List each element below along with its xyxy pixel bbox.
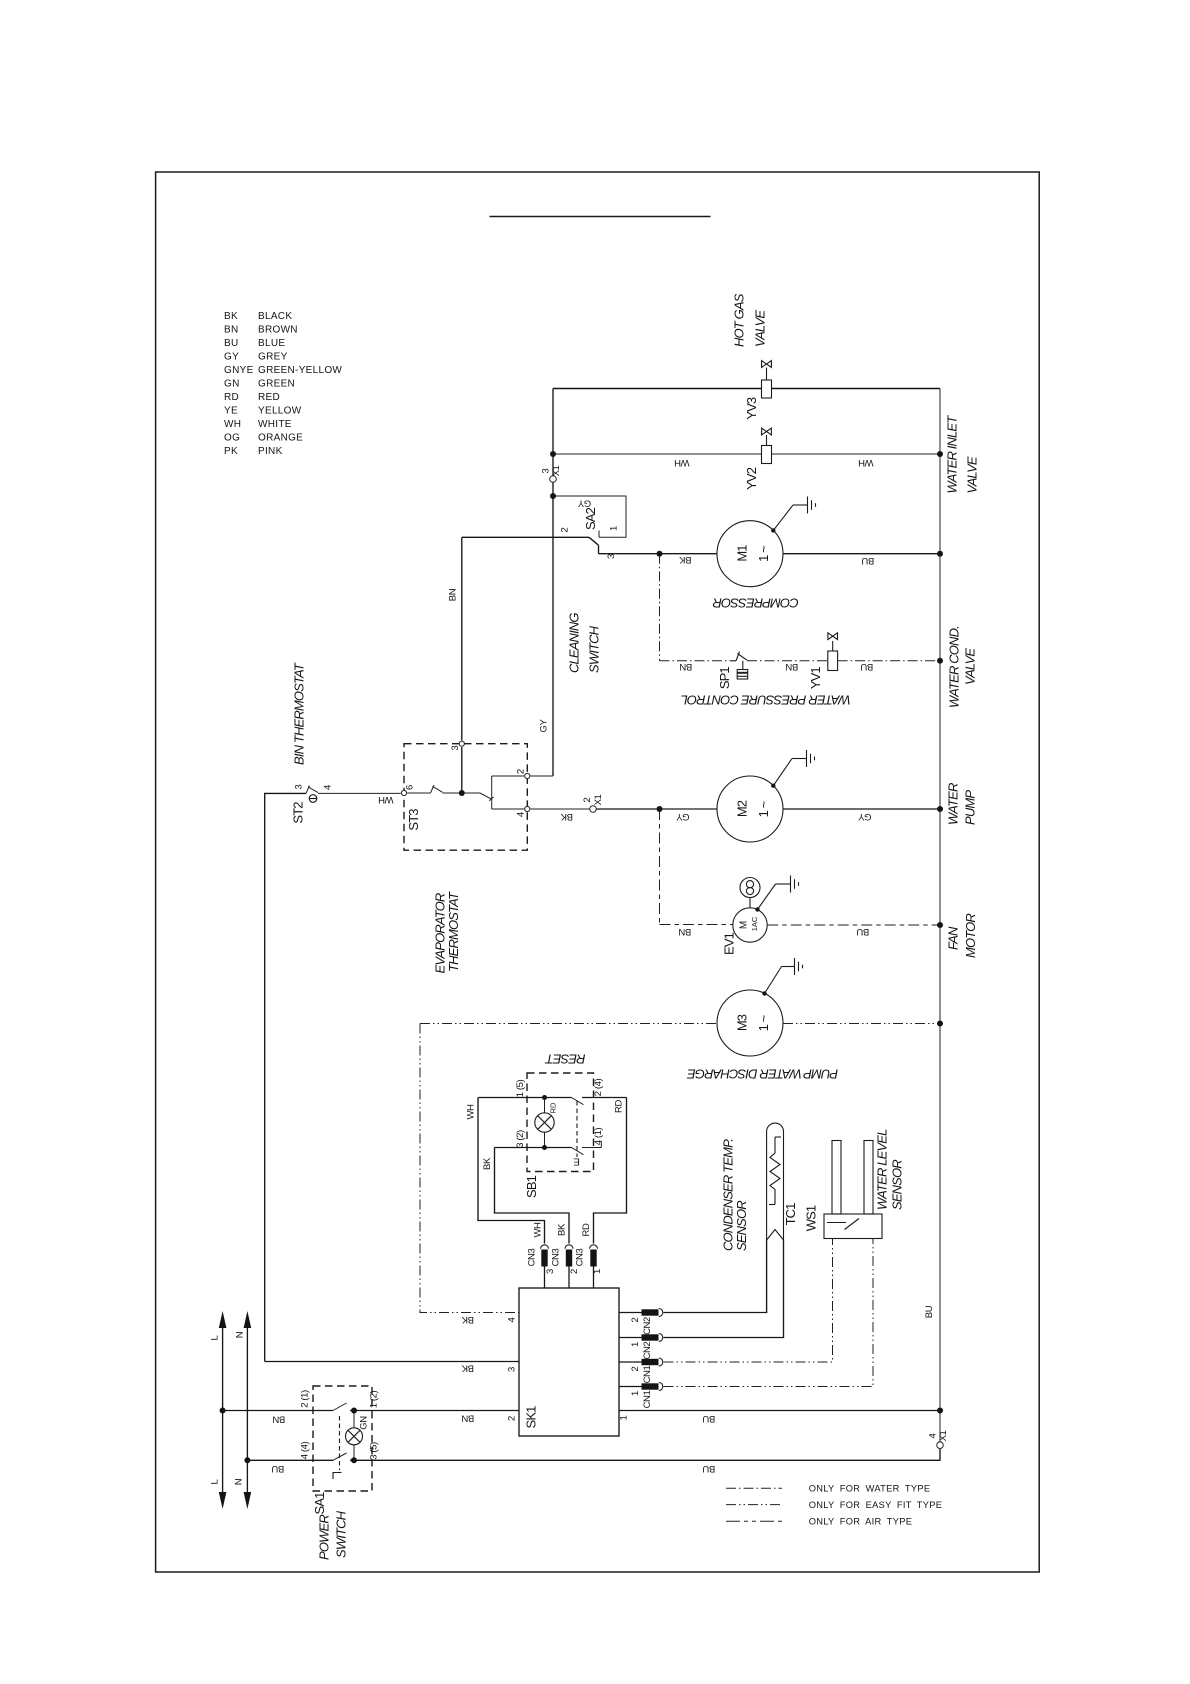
switch ST3 blade6	[431, 785, 443, 793]
svg-text:ST3: ST3	[406, 809, 421, 831]
SB1 mechanical link	[576, 1101, 578, 1157]
svg-text:YELLOW: YELLOW	[258, 406, 302, 417]
junction SA1 lamp bottom node	[351, 1457, 357, 1463]
junction bus M3 node	[937, 1021, 943, 1027]
svg-text:3: 3	[507, 1367, 518, 1372]
svg-text:CN1: CN1	[642, 1365, 653, 1383]
ground M2	[773, 750, 814, 786]
svg-text:4: 4	[516, 812, 527, 817]
junction M2 GY node	[657, 806, 663, 812]
svg-text:3: 3	[606, 554, 617, 559]
wire GY vertical with X1-3 gap	[552, 389, 554, 777]
pin CN2 CN1 digits	[630, 1317, 641, 1396]
junction bus M2 node	[937, 806, 943, 812]
svg-text:GN: GN	[224, 379, 240, 390]
legend row RD RED	[224, 392, 280, 403]
motor M1 compressor circle	[717, 521, 783, 587]
svg-text:WHITE: WHITE	[258, 419, 292, 430]
wire water-type SP1 to YV1	[747, 660, 828, 662]
junction M2 ground tap	[771, 784, 775, 788]
pressure switch SP1	[731, 652, 748, 680]
wire GN lamp legs	[353, 1411, 355, 1461]
wire easyfit CN1-2 to WS1 left	[664, 1239, 833, 1363]
svg-text:6: 6	[404, 785, 415, 790]
border frame	[156, 172, 1040, 1572]
terminal ST3 pin4	[525, 806, 530, 811]
wire easyfit M3 feed left run	[420, 1023, 717, 1025]
svg-text:YE: YE	[224, 406, 238, 417]
legend row BN BROWN	[224, 325, 298, 336]
svg-text:PUMP WATER DISCHARGE: PUMP WATER DISCHARGE	[687, 1067, 839, 1082]
legend row WH WHITE	[224, 419, 292, 430]
svg-text:2: 2	[630, 1366, 641, 1371]
svg-text:1: 1	[592, 1269, 603, 1274]
svg-text:2: 2	[569, 1269, 580, 1274]
wire SB1 lamp legs	[544, 1098, 546, 1148]
legend easy fit sample	[726, 1504, 782, 1506]
wire BU long bottom run to X1-4	[350, 1449, 940, 1460]
sensor WS1 probes	[832, 1141, 873, 1215]
svg-text:1: 1	[630, 1391, 641, 1396]
svg-text:FAN: FAN	[946, 926, 961, 950]
svg-text:BN: BN	[272, 1414, 285, 1425]
connector CN3-3	[541, 1245, 549, 1267]
wire hot-gas line y388	[553, 388, 940, 390]
legend row GNYE GREEN-YELLOW	[224, 365, 342, 376]
svg-text:SA2: SA2	[583, 507, 598, 530]
svg-text:BN: BN	[679, 661, 692, 672]
svg-text:SP1: SP1	[717, 667, 732, 690]
ground EV1	[758, 876, 799, 910]
svg-text:WH: WH	[674, 457, 690, 468]
terminal ST3 pin3	[459, 741, 464, 746]
wire M2 return GY to bus	[783, 808, 940, 810]
wire RD SB1 to CN3-1	[594, 1098, 627, 1244]
svg-text:POWER: POWER	[317, 1515, 332, 1560]
svg-text:4: 4	[323, 785, 334, 790]
SA1 manual operator symbol	[333, 1473, 342, 1480]
terminal label X1-2	[582, 794, 604, 805]
svg-text:L: L	[210, 1335, 221, 1340]
ground M3	[765, 958, 803, 994]
wire right bus neutral	[939, 389, 941, 1442]
wire SA2 pin2 from BN	[462, 536, 589, 538]
wire SB1 pin1 top	[478, 1097, 572, 1099]
terminal label X1-4	[928, 1430, 950, 1441]
switch SB1 bottom blade	[572, 1148, 584, 1155]
junction EV1 ground tap	[755, 907, 759, 911]
junction SA1 lamp top node	[351, 1408, 357, 1414]
svg-text:1 ~: 1 ~	[756, 545, 771, 562]
svg-text:GY: GY	[539, 718, 550, 732]
label HOT GAS VALVE	[732, 293, 768, 347]
valve YV2	[762, 428, 772, 463]
svg-text:WH: WH	[533, 1222, 544, 1238]
wire CN2-2 to TC1 left	[664, 1240, 767, 1313]
junction SB1 lamp bottom node	[542, 1145, 547, 1150]
fan blade symbol	[740, 878, 760, 908]
valve YV1	[828, 633, 838, 671]
svg-text:YV1: YV1	[808, 667, 823, 690]
legend row GN GREEN	[224, 379, 295, 390]
arrow L bottom	[219, 1492, 227, 1509]
arrow N top	[244, 1311, 252, 1328]
wire supply N	[246, 1326, 248, 1494]
valve YV3	[762, 361, 772, 398]
legend row BK BLACK	[224, 311, 292, 322]
svg-text:WH: WH	[858, 457, 874, 468]
switch SA1 top blade	[333, 1403, 347, 1411]
wire BU N to SA1	[247, 1459, 333, 1461]
SA1 mechanical link	[339, 1416, 341, 1470]
wire easyfit vertical to SK1 pin4	[420, 1024, 519, 1313]
terminal X1-2	[590, 806, 597, 813]
junction GY-WH node	[550, 451, 556, 457]
svg-text:BK: BK	[560, 811, 573, 822]
svg-text:BN: BN	[224, 325, 239, 336]
svg-text:ONLY FOR WATER TYPE: ONLY FOR WATER TYPE	[809, 1484, 931, 1494]
svg-text:RESET: RESET	[545, 1052, 586, 1067]
connector CN2-1	[642, 1334, 663, 1342]
terminal ST3 pin6	[401, 790, 406, 795]
svg-text:GY: GY	[857, 811, 871, 822]
svg-text:VALVE: VALVE	[963, 648, 978, 685]
motor EV1 fan circle	[733, 908, 767, 942]
svg-text:SA1: SA1	[312, 1492, 327, 1515]
svg-text:WS1: WS1	[804, 1205, 819, 1231]
svg-text:CN3: CN3	[575, 1248, 586, 1266]
wire air-type drop from M2 node	[659, 809, 661, 925]
svg-text:COMPRESSOR: COMPRESSOR	[713, 596, 799, 611]
svg-text:2: 2	[630, 1317, 641, 1322]
sensor WS1 body	[824, 1214, 882, 1239]
svg-text:PUMP: PUMP	[963, 790, 978, 825]
svg-text:BK: BK	[461, 1363, 474, 1374]
legend row BU BLUE	[224, 338, 285, 349]
switch SB1 top blade	[572, 1098, 584, 1105]
svg-text:GY: GY	[224, 352, 239, 363]
label WATER LEVEL SENSOR	[875, 1129, 905, 1210]
label EV1 M 1AC	[739, 916, 760, 931]
label CONDENSER TEMP. SENSOR	[721, 1139, 749, 1251]
svg-text:GREEN: GREEN	[258, 379, 295, 390]
motor M3 pump water discharge circle	[717, 990, 783, 1056]
svg-text:BU: BU	[924, 1305, 935, 1318]
svg-text:WATER LEVEL: WATER LEVEL	[875, 1129, 890, 1210]
switch SA2 blade	[589, 537, 599, 553]
wire SA2 pin3 to M1 node	[599, 553, 660, 555]
svg-text:1 (5): 1 (5)	[515, 1080, 526, 1098]
svg-text:BLACK: BLACK	[258, 311, 292, 322]
svg-text:3 (5): 3 (5)	[369, 1442, 380, 1460]
legend row PK PINK	[224, 446, 283, 457]
wire water-type SP1 run left	[660, 660, 732, 662]
svg-text:RED: RED	[258, 392, 280, 403]
svg-text:3: 3	[545, 1269, 556, 1274]
svg-text:GREY: GREY	[258, 352, 288, 363]
svg-text:BU: BU	[224, 338, 239, 349]
junction bus BU-M1 node	[937, 551, 943, 557]
svg-text:4: 4	[507, 1317, 518, 1322]
svg-text:BIN THERMOSTAT: BIN THERMOSTAT	[292, 662, 307, 765]
label WATER COND. VALVE	[947, 626, 978, 708]
svg-text:HOT GAS: HOT GAS	[732, 293, 747, 347]
connector CN3-1	[590, 1245, 598, 1267]
svg-text:BK: BK	[224, 311, 238, 322]
svg-text:ONLY FOR AIR TYPE: ONLY FOR AIR TYPE	[809, 1516, 913, 1526]
wire ST2 to ST3 pin6 WH	[318, 792, 401, 794]
svg-text:1 ~: 1 ~	[756, 1014, 771, 1031]
svg-text:X1: X1	[551, 465, 562, 476]
svg-text:BU: BU	[860, 661, 873, 672]
svg-text:M3: M3	[735, 1014, 750, 1031]
legend row YE YELLOW	[224, 406, 302, 417]
svg-text:1AC: 1AC	[750, 916, 759, 931]
svg-text:ORANGE: ORANGE	[258, 433, 303, 444]
svg-text:E: E	[573, 1156, 580, 1167]
svg-text:WATER: WATER	[946, 783, 961, 825]
wire ST2 left leg from frame	[265, 793, 306, 1361]
svg-text:BN: BN	[785, 661, 798, 672]
svg-text:BU: BU	[702, 1413, 715, 1424]
label M2	[735, 800, 772, 817]
svg-text:THERMOSTAT: THERMOSTAT	[446, 891, 461, 972]
connector CN3-2	[565, 1245, 573, 1267]
junction bus WH node	[937, 451, 943, 457]
svg-text:GN: GN	[359, 1416, 370, 1430]
wire M2 feed from X1-2 node	[660, 808, 718, 810]
svg-text:BN: BN	[678, 926, 691, 937]
svg-text:SWITCH: SWITCH	[587, 625, 602, 673]
svg-text:BN: BN	[448, 588, 459, 601]
svg-text:X1: X1	[593, 794, 604, 805]
svg-text:WH: WH	[378, 794, 394, 805]
svg-text:1: 1	[609, 526, 620, 531]
svg-text:CN3: CN3	[551, 1248, 562, 1266]
svg-text:GY: GY	[675, 811, 689, 822]
thermostat box ST3	[404, 744, 527, 851]
pushbutton box SB1	[527, 1073, 594, 1172]
svg-text:2: 2	[560, 527, 571, 532]
wire CN3 stubs to SK1	[545, 1267, 594, 1289]
junction L-BN node	[220, 1408, 226, 1414]
svg-text:EV1: EV1	[721, 932, 736, 955]
wire M1 feed BK	[660, 553, 718, 555]
svg-text:SWITCH: SWITCH	[334, 1510, 349, 1558]
svg-text:CN2: CN2	[642, 1341, 653, 1359]
wire M1 return BU to bus	[783, 553, 940, 555]
label M3	[735, 1014, 772, 1031]
wire water-type drop from M1 node	[659, 554, 661, 661]
svg-text:CLEANING: CLEANING	[567, 613, 582, 673]
label POWER SWITCH	[317, 1510, 349, 1560]
label FAN MOTOR	[946, 914, 979, 958]
svg-text:3: 3	[541, 468, 552, 473]
svg-text:SB1: SB1	[524, 1175, 539, 1198]
wire SK1 CN2 CN1 stubs	[619, 1313, 642, 1387]
svg-text:3 (2): 3 (2)	[515, 1130, 526, 1148]
arrow N bottom	[244, 1492, 252, 1509]
switch SA1 bottom blade	[333, 1453, 347, 1460]
svg-text:3: 3	[450, 745, 461, 750]
wire supply L	[222, 1326, 224, 1494]
label EVAPORATOR THERMOSTAT	[433, 891, 461, 974]
junction bus SK1-pin1 node	[937, 1408, 943, 1414]
junction N-BU node	[244, 1457, 250, 1463]
svg-text:RD: RD	[549, 1102, 558, 1113]
title underline	[490, 216, 711, 218]
svg-text:RD: RD	[224, 392, 239, 403]
lamp GN indicator	[346, 1428, 363, 1445]
junction SB1 lamp top node	[542, 1095, 547, 1100]
svg-text:ONLY FOR EASY FIT TYPE: ONLY FOR EASY FIT TYPE	[809, 1500, 943, 1510]
label CN3 x3	[527, 1248, 586, 1266]
wire ST3 pin6 to contact	[407, 792, 430, 794]
svg-text:VALVE: VALVE	[753, 310, 768, 347]
svg-text:WATER PRESSURE CONTROL: WATER PRESSURE CONTROL	[681, 693, 851, 708]
wire air-type to EV1	[660, 924, 733, 926]
svg-text:CN3: CN3	[527, 1248, 538, 1266]
legend air type sample	[726, 1520, 782, 1522]
wire ST3 pin2 to GY vertical	[492, 775, 553, 777]
wire SA2 frame top and pin1 stub	[553, 496, 626, 537]
svg-text:2: 2	[516, 769, 527, 774]
terminal X1-4	[937, 1442, 944, 1449]
svg-text:L: L	[210, 1479, 221, 1484]
svg-text:RD: RD	[581, 1223, 592, 1236]
junction SA2 top node	[550, 493, 556, 499]
legend row GY GREY	[224, 352, 288, 363]
svg-text:1: 1	[619, 1415, 630, 1420]
lamp SB1 RD indicator	[535, 1113, 554, 1132]
junction M1 ground tap	[771, 528, 775, 532]
svg-text:GY: GY	[577, 497, 591, 508]
svg-text:GREEN-YELLOW: GREEN-YELLOW	[258, 365, 342, 376]
svg-text:BK: BK	[482, 1157, 493, 1170]
svg-text:BK: BK	[679, 554, 692, 565]
sensor TC1 capsule	[767, 1123, 784, 1240]
connector CN2-2	[642, 1309, 663, 1317]
svg-text:ST2: ST2	[291, 802, 306, 824]
svg-text:N: N	[234, 1478, 245, 1485]
svg-text:4: 4	[928, 1433, 939, 1438]
svg-text:TC1: TC1	[783, 1203, 798, 1226]
wire SK1 pin1 BU to bus	[619, 1410, 940, 1412]
thermostat symbol theta ST2	[309, 795, 317, 803]
wire water-type YV1 to bus	[838, 660, 940, 662]
wire easyfit CN1-1 to WS1 right	[664, 1239, 874, 1387]
wire ST3 contact bar vertical	[491, 776, 493, 809]
wire SK1 pin3 BK from ST2	[265, 1361, 519, 1363]
svg-text:OG: OG	[224, 433, 240, 444]
svg-text:1 ~: 1 ~	[756, 800, 771, 817]
switch ST3 blade common	[480, 793, 494, 801]
label CLEANING SWITCH	[567, 613, 602, 673]
svg-text:BN: BN	[461, 1413, 474, 1424]
svg-text:2: 2	[507, 1416, 518, 1421]
wire WH water-inlet line y454	[553, 453, 940, 455]
arrow L top	[219, 1311, 227, 1328]
svg-text:PINK: PINK	[258, 446, 283, 457]
label WATER INLET VALVE	[945, 415, 980, 494]
power switch box SA1	[313, 1386, 372, 1491]
svg-text:WATER INLET: WATER INLET	[945, 415, 960, 494]
svg-text:4 (4): 4 (4)	[300, 1442, 311, 1460]
label CN2 CN2 CN1 CN1	[642, 1317, 653, 1408]
svg-text:BK: BK	[461, 1314, 474, 1325]
svg-text:CN1: CN1	[642, 1390, 653, 1408]
svg-text:BROWN: BROWN	[258, 325, 298, 336]
svg-text:2 (1): 2 (1)	[300, 1390, 311, 1408]
wire SB1 pin4(1) stub	[582, 1141, 601, 1148]
svg-text:BU: BU	[856, 926, 869, 937]
svg-text:M: M	[739, 921, 750, 929]
ground M1	[773, 497, 815, 531]
wire BN L to SA1	[223, 1410, 333, 1412]
svg-text:SK1: SK1	[524, 1406, 539, 1429]
svg-text:BLUE: BLUE	[258, 338, 285, 349]
pin CN3 digits	[545, 1269, 603, 1274]
svg-text:WH: WH	[224, 419, 241, 430]
junction bus EV1 node	[937, 922, 943, 928]
junction M1 BK node	[657, 551, 663, 557]
junction bus YV1 node	[937, 658, 943, 664]
svg-text:2: 2	[582, 797, 593, 802]
svg-text:M2: M2	[735, 800, 750, 817]
svg-text:1 (2): 1 (2)	[369, 1391, 380, 1409]
svg-text:2 (4): 2 (4)	[593, 1079, 604, 1097]
junction ST3 common node	[459, 790, 465, 796]
svg-text:M1: M1	[735, 545, 750, 562]
svg-text:SENSOR: SENSOR	[890, 1160, 905, 1210]
label M1	[735, 545, 772, 562]
wire SB1 pin2(4) out RD	[582, 1097, 627, 1099]
legend water type sample	[726, 1487, 782, 1489]
wire SB1 pin3 bottom	[495, 1147, 572, 1149]
wire BN SA1 to SK1 pin2	[350, 1410, 519, 1412]
svg-text:BU: BU	[861, 555, 874, 566]
wire WH SB1 to CN3-3	[478, 1098, 545, 1244]
wire easyfit M3 to bus	[783, 1023, 940, 1025]
connector CN1-1	[642, 1383, 663, 1391]
svg-text:CN2: CN2	[642, 1317, 653, 1335]
switch ST2 blade	[306, 786, 318, 794]
svg-text:WATER COND.: WATER COND.	[947, 626, 962, 708]
svg-text:PK: PK	[224, 446, 238, 457]
svg-text:BU: BU	[702, 1463, 715, 1474]
wire CN2-1 to TC1 right	[664, 1240, 784, 1338]
wire air-type EV1 to bus	[767, 924, 940, 926]
svg-text:BU: BU	[271, 1463, 284, 1474]
svg-text:4 (1): 4 (1)	[593, 1128, 604, 1146]
svg-text:X1: X1	[938, 1430, 949, 1441]
terminal ST3 pin2	[525, 773, 530, 778]
wire ST3 common node link	[443, 792, 481, 794]
legend row OG ORANGE	[224, 433, 303, 444]
svg-text:BK: BK	[557, 1223, 568, 1236]
svg-text:SENSOR: SENSOR	[734, 1201, 749, 1251]
svg-text:1: 1	[630, 1342, 641, 1347]
wire ST3 pin4 out to X1-2 and node	[492, 808, 717, 810]
wire BN vertical to ST3 pin3	[461, 537, 463, 793]
svg-text:N: N	[235, 1331, 246, 1338]
svg-text:WH: WH	[466, 1104, 477, 1120]
controller box SK1	[519, 1288, 619, 1436]
svg-text:VALVE: VALVE	[965, 456, 980, 493]
connector CN1-2	[642, 1358, 663, 1366]
svg-text:3: 3	[294, 784, 305, 789]
svg-text:GNYE: GNYE	[224, 365, 254, 376]
